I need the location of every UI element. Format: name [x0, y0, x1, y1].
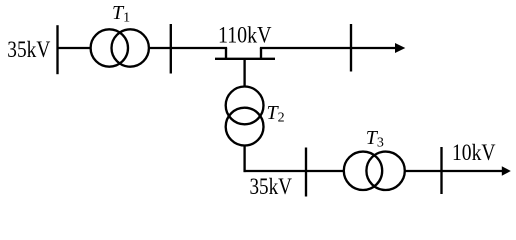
- svg-text:T2: T2: [267, 102, 285, 126]
- svg-text:35kV: 35kV: [250, 174, 293, 199]
- svg-text:110kV: 110kV: [218, 23, 272, 48]
- svg-text:T3: T3: [366, 127, 384, 151]
- svg-text:T1: T1: [112, 2, 130, 26]
- svg-text:35kV: 35kV: [7, 37, 50, 62]
- svg-text:10kV: 10kV: [452, 140, 496, 165]
